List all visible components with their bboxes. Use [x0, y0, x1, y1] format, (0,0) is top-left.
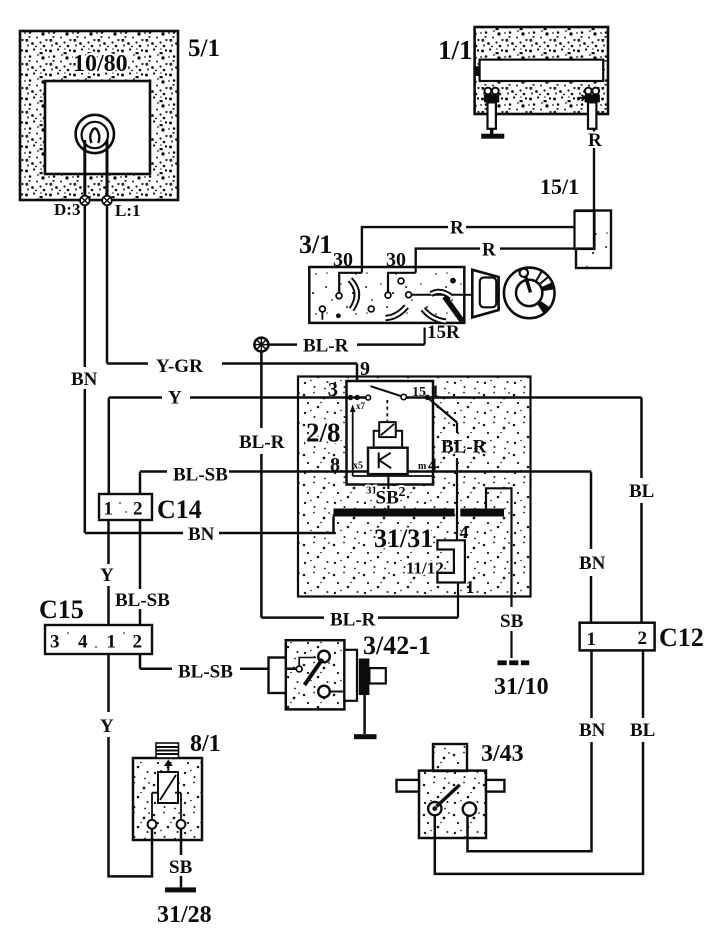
svg-text:3: 3	[50, 632, 60, 653]
svg-text:Y: Y	[100, 565, 114, 586]
wire BL right side down to C12 pin 2	[629, 398, 654, 623]
wire Y C15 pin1 down to pump 8/1	[100, 654, 152, 876]
svg-text:1: 1	[466, 577, 475, 597]
ground at battery negative	[481, 129, 504, 139]
fuse box 15/1	[575, 211, 612, 269]
relay switch contact	[366, 386, 407, 421]
svg-text:C15: C15	[39, 595, 84, 624]
svg-text:31/10: 31/10	[494, 674, 549, 700]
battery negative terminal	[484, 88, 499, 129]
svg-text:BN: BN	[579, 553, 606, 574]
connector bracket 11/12	[437, 540, 465, 582]
wire Y-GR lamp L:1 to relay terminal 9	[107, 205, 357, 377]
svg-text:4: 4	[428, 455, 437, 475]
wire Y C14 pin1 to C15 pin1	[100, 520, 114, 625]
ground 31/28	[157, 887, 212, 928]
svg-text:L:1: L:1	[115, 201, 141, 220]
wire BL-R bottom horizontal	[261, 610, 458, 631]
relay terminal 4	[418, 455, 437, 475]
wire Y drop to C14 pin 1	[108, 398, 111, 495]
svg-text:C14: C14	[157, 495, 202, 524]
wire BL-SB C14 pin2 to C15 pin2	[115, 520, 170, 625]
svg-text:Y-GR: Y-GR	[156, 356, 203, 377]
svg-text:3: 3	[328, 379, 338, 401]
battery 1/1	[438, 27, 608, 114]
svg-text:SB: SB	[500, 611, 524, 632]
svg-text:2: 2	[638, 628, 648, 649]
key switch housing trapezoid	[464, 270, 499, 318]
ground at 3/42-1	[354, 734, 377, 739]
wire BN right side down to C12 pin 1	[579, 472, 606, 623]
svg-text:BL-R: BL-R	[239, 432, 285, 453]
svg-text:SB: SB	[376, 488, 400, 509]
connector C15	[45, 625, 152, 654]
svg-text:4: 4	[78, 632, 88, 653]
svg-text:C12: C12	[659, 623, 704, 652]
ignition switch terminal 30 wiring first	[336, 267, 362, 299]
relay compound box 2/8	[298, 377, 531, 597]
level switch 3/43	[397, 744, 505, 838]
junction node BL-R star	[254, 338, 268, 352]
relay coil ground wire terminal 31 SB2	[366, 474, 406, 508]
battery positive terminal	[578, 88, 600, 129]
svg-text:R: R	[588, 130, 602, 151]
svg-text:SB: SB	[169, 857, 193, 878]
relay coil assembly	[374, 422, 402, 447]
wire BL-SB C15 pin2 to switch 3/42-1	[140, 654, 297, 683]
relay terminal 8	[330, 454, 363, 476]
wire SB pump to ground 31/28	[169, 829, 193, 888]
svg-text:BN: BN	[71, 369, 98, 390]
wire BL-R relay terminal 1 diagonal and down	[427, 397, 486, 540]
svg-text:BL-R: BL-R	[330, 610, 376, 631]
wire terminal 9 into relay	[357, 358, 370, 398]
svg-text:2: 2	[133, 499, 143, 520]
wire BN horizontal lamp to ground bar 31/31	[85, 517, 334, 546]
wire 15R down to BL-R junction	[424, 328, 426, 345]
svg-text:1: 1	[107, 632, 117, 653]
terminal L:1	[102, 196, 140, 220]
ground 31/10	[494, 660, 549, 700]
ignition switch 3/1 body	[309, 267, 464, 323]
svg-text:1: 1	[431, 382, 440, 401]
svg-text:x5: x5	[353, 461, 363, 472]
svg-text:15/1: 15/1	[540, 174, 579, 199]
wire BN 3/43 right terminal to C12 pin1	[468, 651, 606, 852]
wire BN lamp D:3 down	[71, 205, 98, 533]
svg-text:Y: Y	[168, 388, 182, 409]
ignition switch contact segment middle	[386, 307, 407, 319]
ignition switch output line to key cylinder	[406, 292, 464, 298]
wire BL 3/43 left terminal to C12 pin2	[435, 651, 656, 874]
svg-text:8/1: 8/1	[190, 731, 221, 757]
washer pump 8/1	[133, 743, 202, 840]
svg-text:BL-R: BL-R	[303, 336, 349, 357]
ground bus bar 31/31 left segment	[334, 509, 455, 517]
relay 2/8 inner box	[347, 381, 434, 485]
svg-text:3/43: 3/43	[481, 741, 524, 767]
svg-text:R: R	[482, 240, 496, 261]
relay coil K box	[368, 448, 408, 474]
svg-text:D:3: D:3	[54, 200, 80, 219]
svg-text:BL-SB: BL-SB	[178, 662, 233, 683]
svg-text:15R: 15R	[427, 322, 460, 343]
svg-text:BL-R: BL-R	[441, 437, 487, 458]
ignition switch contact segment left	[350, 280, 357, 310]
bulb symbol 10/80	[76, 115, 114, 153]
connector C12	[580, 623, 704, 652]
wire R battery to fuse 15/1	[588, 129, 602, 211]
relay terminal 3	[328, 379, 366, 411]
wire BL-SB drop to C14 pin 2	[139, 472, 142, 495]
svg-text:3/1: 3/1	[299, 230, 332, 259]
ignition switch 15R contact assembly	[423, 292, 463, 322]
svg-text:31/28: 31/28	[157, 902, 212, 928]
svg-text:BL: BL	[630, 720, 655, 741]
svg-text:1/1: 1/1	[438, 35, 473, 65]
ignition key cylinder symbol	[504, 268, 555, 319]
svg-text:m: m	[418, 461, 427, 472]
svg-text:8: 8	[330, 454, 340, 476]
svg-text:BN: BN	[579, 720, 606, 741]
washer switch 3/42-1	[269, 640, 386, 709]
lamp cluster box 10/80 in unit 5/1	[20, 31, 178, 200]
svg-text:BL-SB: BL-SB	[173, 465, 228, 486]
svg-text:2/8: 2/8	[306, 418, 341, 448]
wire R lower fuse to ignition switch	[416, 240, 594, 268]
terminal D:3	[54, 196, 90, 219]
wire BL-SB horizontal to relay pin 8 and onward	[140, 465, 591, 486]
ground bus bar 31/31 right segment	[460, 509, 504, 517]
svg-text:R: R	[450, 218, 464, 239]
svg-text:31/31: 31/31	[374, 524, 433, 553]
ignition switch terminal 30 wiring second	[385, 267, 416, 298]
svg-text:4: 4	[460, 522, 469, 542]
wire BL-R vertical left	[239, 352, 285, 618]
wire SB down to ground 31/10	[500, 530, 524, 658]
svg-text:15: 15	[412, 385, 426, 400]
wire bulb to terminal L:1	[106, 140, 109, 196]
ground bar step to SB wire	[486, 488, 512, 530]
wire R upper fuse to ignition switch	[362, 218, 575, 268]
connector C14	[99, 494, 202, 524]
svg-text:BN: BN	[188, 524, 215, 545]
svg-text:2: 2	[133, 632, 143, 653]
ignition switch pole contacts	[320, 278, 456, 320]
svg-text:10/80: 10/80	[73, 51, 128, 77]
svg-text:x7: x7	[356, 401, 366, 411]
wire switch 3/42-1 to ground	[363, 695, 366, 734]
bracket terminal 1 wire down	[458, 577, 475, 618]
wire BL-R junction to ignition 15R	[269, 336, 425, 357]
relay terminal 15 and 1	[412, 382, 440, 401]
svg-text:BL-SB: BL-SB	[115, 590, 170, 611]
svg-text:BL: BL	[629, 481, 654, 502]
svg-text:1: 1	[104, 499, 114, 520]
svg-text:3/42-1: 3/42-1	[363, 631, 431, 660]
svg-text:5/1: 5/1	[188, 35, 220, 62]
wire bulb to terminal D:3	[83, 140, 86, 196]
wire Y main horizontal line	[109, 388, 642, 409]
svg-text:1: 1	[587, 629, 597, 650]
svg-text:2: 2	[399, 485, 406, 500]
svg-text:Y: Y	[100, 716, 114, 737]
